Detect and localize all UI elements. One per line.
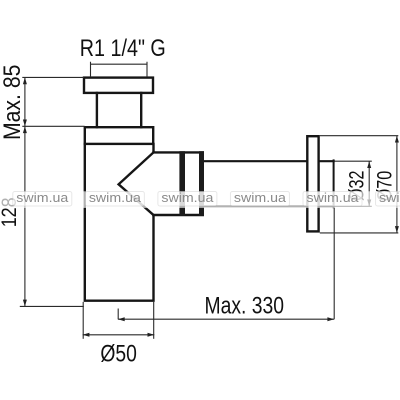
pipe chamfer point [119,152,154,215]
extension pipe bottom [335,205,372,207]
extension body bottom [20,305,84,307]
svg-text:swim.ua: swim.ua [379,190,400,205]
extension body bottom right [153,302,155,339]
extension flange top [320,135,399,137]
svg-text:Ø50: Ø50 [100,340,137,367]
dim line D50 [83,334,155,336]
arrow D70 bottom [395,226,399,233]
arrow D32 top [367,161,371,168]
svg-text:R1 1/4" G: R1 1/4" G [80,35,166,62]
pipe end edge [333,160,335,207]
watermark boxes [13,192,400,207]
extension pipe end [333,208,335,320]
dim line Max330 [118,318,334,320]
outlet pipe wide part [154,152,203,215]
arrow D70 top [395,136,399,143]
svg-text:swim.ua: swim.ua [307,190,360,205]
riser Max330 left [117,309,119,320]
arrow max85 top [23,77,27,84]
arrow D50 left [83,333,90,337]
dim line D32 [368,161,370,206]
top inlet flange [84,78,153,93]
hatched joint bar [179,151,185,216]
thread bracket [91,62,148,77]
bottle body [85,144,154,301]
wall flange [307,136,318,231]
watermark band [0,191,400,208]
extension body bottom left [82,302,84,339]
inlet neck [97,93,141,127]
extension flange bottom [320,232,399,234]
extension pipe top [335,160,372,162]
arrow D50 right [148,333,155,337]
outlet narrow pipe [204,161,307,206]
arrow Max330 right [327,317,334,321]
svg-text:swim.ua: swim.ua [89,190,142,205]
svg-text:swim.ua: swim.ua [234,190,287,205]
arrow 128 bottom [23,300,27,307]
dim line D70 [396,136,398,233]
dim line left vertical [24,77,26,306]
pipe end bar [199,151,204,216]
arrow D32 bottom [367,200,371,207]
extension top flange [22,76,84,78]
svg-text:Max. 85: Max. 85 [0,65,26,141]
arrow Max330 left [118,317,125,321]
svg-text:swim.ua: swim.ua [16,190,69,205]
arrow max85 bottom [23,120,27,127]
pipe protrusion through flange [319,161,334,206]
svg-text:swim.ua: swim.ua [161,190,214,205]
arrow 128 top [23,126,27,133]
svg-text:Max. 330: Max. 330 [205,292,285,319]
extension nut top [22,125,84,127]
watermark text [16,190,400,205]
body nut [85,127,153,144]
